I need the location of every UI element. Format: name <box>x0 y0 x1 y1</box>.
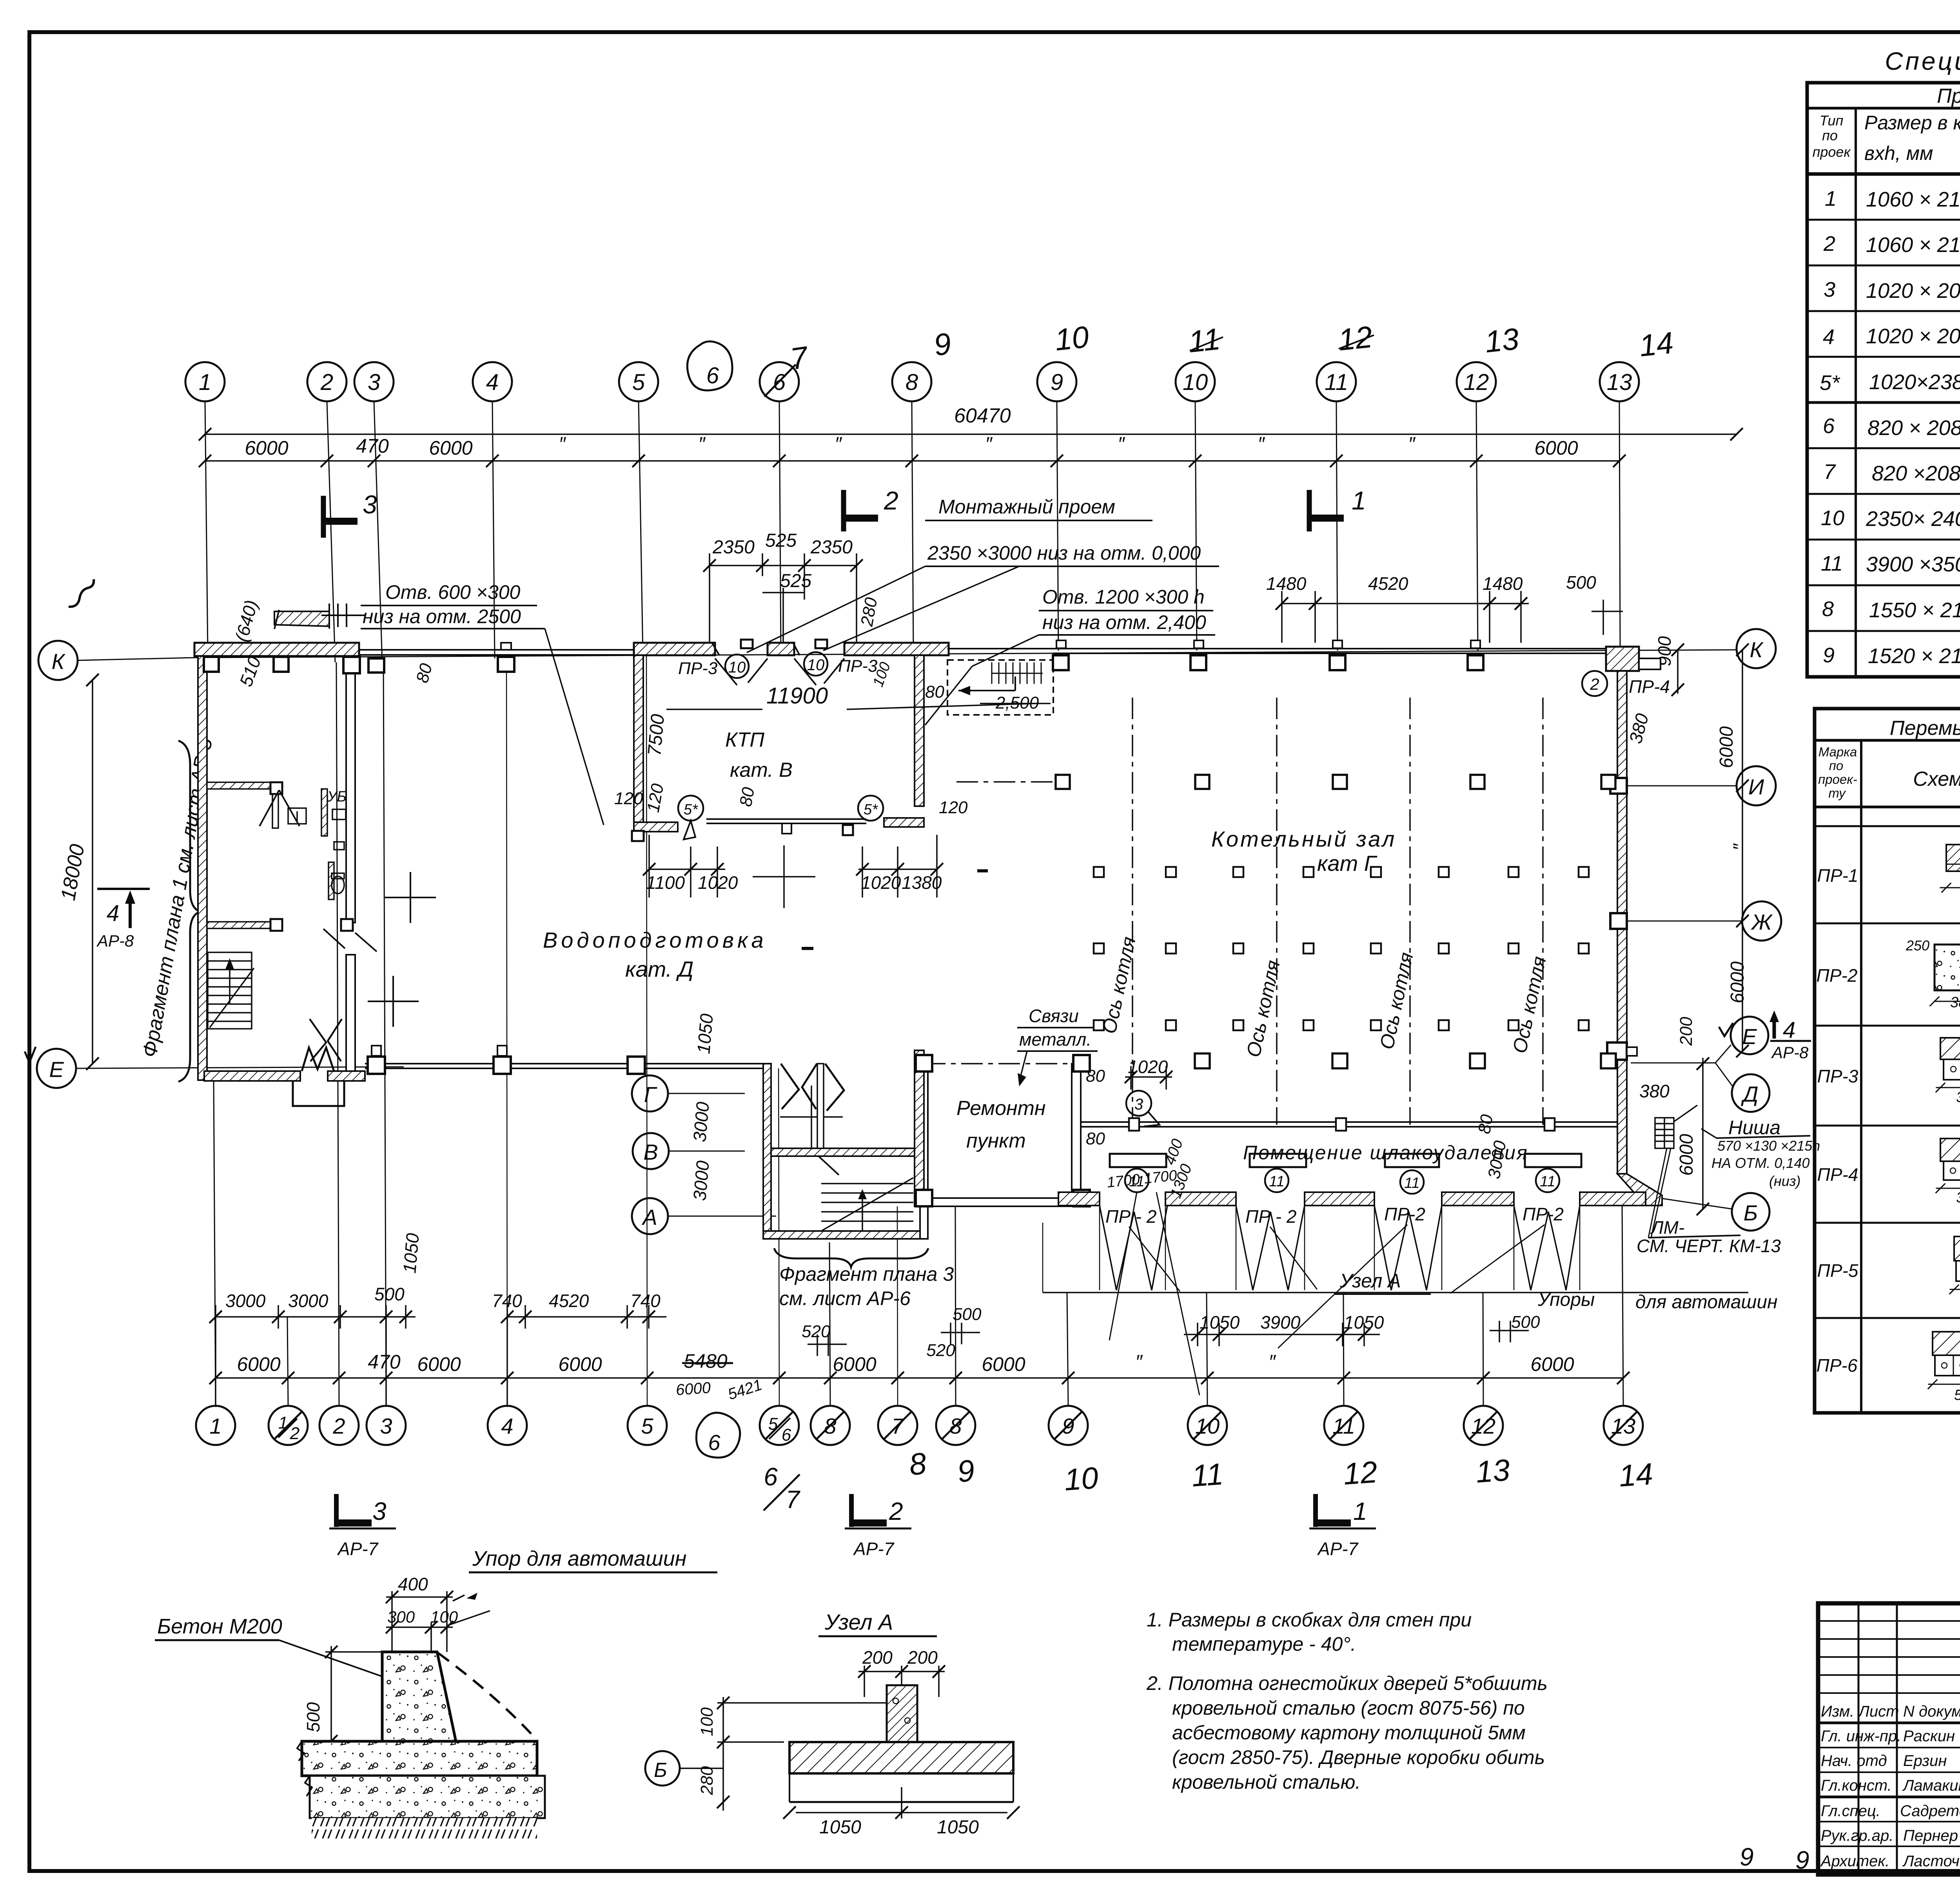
svg-text:Рук.гр.ар.: Рук.гр.ар. <box>1821 1827 1893 1844</box>
svg-text:7: 7 <box>1824 460 1836 484</box>
svg-text:температуре - 40°.: температуре - 40°. <box>1172 1633 1356 1655</box>
svg-text:Е: Е <box>1742 1024 1757 1049</box>
svg-text:1050: 1050 <box>819 1817 861 1838</box>
svg-text:Изм. Лист: Изм. Лист <box>1821 1703 1899 1720</box>
svg-text:6: 6 <box>773 370 786 395</box>
svg-text:Тип: Тип <box>1820 112 1844 129</box>
svg-text:Ось котля: Ось котля <box>1376 950 1417 1051</box>
svg-text:13: 13 <box>1611 1414 1635 1438</box>
svg-text:для автомашин: для автомашин <box>1635 1292 1777 1313</box>
svg-text:9: 9 <box>1051 370 1063 395</box>
svg-text:80: 80 <box>736 786 759 808</box>
svg-text:Проемы: Проемы <box>1937 85 1960 107</box>
svg-text:1050: 1050 <box>937 1817 979 1838</box>
svg-text:2: 2 <box>1590 675 1599 693</box>
svg-text:Д: Д <box>1740 1082 1758 1106</box>
svg-text:Гл. инж-пр.: Гл. инж-пр. <box>1821 1728 1901 1745</box>
svg-text:80: 80 <box>1086 1129 1105 1148</box>
svg-text:Водоподготовка: Водоподготовка <box>543 928 767 952</box>
svg-text:Гл.конст.: Гл.конст. <box>1821 1777 1892 1794</box>
svg-text:8: 8 <box>1822 597 1834 621</box>
svg-text:НА ОТМ. 0,140: НА ОТМ. 0,140 <box>1711 1155 1810 1171</box>
svg-text:″: ″ <box>835 433 842 455</box>
svg-text:200: 200 <box>907 1647 938 1668</box>
svg-text:5*: 5* <box>684 801 698 818</box>
svg-text:Узел А: Узел А <box>1339 1270 1401 1292</box>
svg-text:14: 14 <box>1618 1456 1654 1493</box>
svg-text:500: 500 <box>1566 572 1596 593</box>
svg-text:10: 10 <box>807 656 825 674</box>
svg-text:ПР-5: ПР-5 <box>1817 1260 1858 1281</box>
svg-text:3: 3 <box>363 490 377 519</box>
svg-text:9: 9 <box>1062 1414 1074 1438</box>
svg-text:3: 3 <box>372 1497 387 1525</box>
svg-text:3: 3 <box>1134 1096 1143 1113</box>
svg-text:11: 11 <box>1540 1173 1555 1190</box>
svg-text:Размер в кладке: Размер в кладке <box>1864 112 1960 134</box>
svg-text:6000: 6000 <box>237 1353 280 1375</box>
svg-text:380: 380 <box>1639 1081 1670 1101</box>
svg-text:пункт: пункт <box>966 1129 1026 1152</box>
svg-text:7: 7 <box>891 1414 904 1438</box>
svg-text:АР-8: АР-8 <box>1771 1043 1809 1062</box>
svg-text:1100: 1100 <box>646 872 685 893</box>
svg-text:1550 × 2100: 1550 × 2100 <box>1869 598 1960 622</box>
svg-text:820 ×2080: 820 ×2080 <box>1872 462 1960 485</box>
svg-text:Отв. 600 ×300: Отв. 600 ×300 <box>385 581 521 603</box>
svg-text:ПР-2: ПР-2 <box>1523 1204 1564 1224</box>
svg-text:Ерзин: Ерзин <box>1903 1752 1947 1769</box>
svg-text:7: 7 <box>788 339 811 376</box>
svg-text:8: 8 <box>906 370 918 395</box>
svg-text:Ось котля: Ось котля <box>1242 958 1284 1059</box>
svg-text:6000: 6000 <box>982 1353 1025 1375</box>
svg-text:10: 10 <box>1183 370 1208 395</box>
svg-text:1: 1 <box>1352 486 1366 515</box>
svg-text:525: 525 <box>780 571 811 591</box>
svg-text:470: 470 <box>368 1351 401 1373</box>
svg-text:кат. В: кат. В <box>730 759 793 781</box>
svg-text:500: 500 <box>953 1305 982 1324</box>
svg-text:100: 100 <box>697 1707 717 1736</box>
svg-text:120: 120 <box>644 782 668 814</box>
svg-text:КТП: КТП <box>725 729 764 751</box>
svg-text:11: 11 <box>1129 1173 1144 1190</box>
svg-text:1060 × 2100: 1060 × 2100 <box>1866 188 1960 211</box>
svg-text:8: 8 <box>907 1446 928 1482</box>
svg-text:250: 250 <box>1906 937 1929 954</box>
svg-text:4: 4 <box>501 1414 513 1438</box>
svg-text:11: 11 <box>1191 1456 1225 1493</box>
svg-text:12: 12 <box>1336 319 1374 357</box>
svg-text:АР-8: АР-8 <box>96 932 134 950</box>
svg-text:3: 3 <box>1824 278 1835 301</box>
svg-text:80: 80 <box>412 661 436 685</box>
svg-text:11: 11 <box>1404 1175 1419 1191</box>
svg-text:12: 12 <box>1464 370 1489 395</box>
svg-text:10: 10 <box>1195 1414 1220 1438</box>
svg-text:кат Г: кат Г <box>1317 851 1377 876</box>
svg-text:ПР-4: ПР-4 <box>1629 676 1670 697</box>
svg-text:(гост 2850-75). Дверные кор: (гост 2850-75). Дверные коробки обить <box>1172 1746 1545 1768</box>
svg-text:1020: 1020 <box>861 872 901 893</box>
svg-text:2: 2 <box>320 370 333 395</box>
svg-text:510: 510 <box>236 654 265 689</box>
svg-text:11: 11 <box>1325 370 1348 395</box>
svg-text:12: 12 <box>1471 1414 1495 1438</box>
svg-text:300: 300 <box>387 1608 415 1626</box>
svg-text:АР-7: АР-7 <box>1317 1539 1359 1559</box>
svg-text:1480: 1480 <box>1266 573 1307 594</box>
svg-text:6000: 6000 <box>417 1353 461 1375</box>
svg-text:ПР - 2: ПР - 2 <box>1245 1206 1296 1227</box>
svg-text:380: 380 <box>1956 1189 1960 1206</box>
svg-text:120: 120 <box>939 798 968 817</box>
svg-text:кровельной сталью (гост 807: кровельной сталью (гост 8075-56) по <box>1172 1697 1525 1719</box>
svg-text:4: 4 <box>107 901 119 926</box>
svg-text:525: 525 <box>765 530 797 551</box>
svg-text:И: И <box>1748 774 1764 799</box>
svg-text:АР-7: АР-7 <box>853 1539 895 1559</box>
svg-text:Котельный зал: Котельный зал <box>1211 827 1396 851</box>
svg-text:5: 5 <box>641 1414 653 1438</box>
svg-text:ПР-2: ПР-2 <box>1817 965 1858 986</box>
svg-text:3: 3 <box>380 1414 392 1438</box>
svg-text:4: 4 <box>486 370 499 395</box>
svg-text:13: 13 <box>1483 321 1520 359</box>
svg-text:6000: 6000 <box>833 1353 876 1375</box>
svg-text:3900 ×3500: 3900 ×3500 <box>1866 553 1960 576</box>
svg-text:1050: 1050 <box>1200 1312 1240 1333</box>
svg-text:4520: 4520 <box>549 1291 589 1311</box>
svg-text:380: 380 <box>1956 1089 1960 1106</box>
svg-text:2: 2 <box>1823 232 1835 256</box>
svg-text:280: 280 <box>857 596 881 628</box>
svg-text:по: по <box>1822 127 1838 143</box>
svg-text:6: 6 <box>782 1425 791 1445</box>
svg-text:см. лист АР-6: см. лист АР-6 <box>779 1287 911 1309</box>
svg-text:570 ×130 ×215h: 570 ×130 ×215h <box>1717 1138 1820 1154</box>
svg-text:6000: 6000 <box>1716 726 1737 768</box>
svg-text:470: 470 <box>356 435 389 457</box>
svg-text:Марка: Марка <box>1818 745 1857 759</box>
svg-text:3000: 3000 <box>689 1160 713 1202</box>
svg-text:1050: 1050 <box>693 1013 717 1055</box>
svg-text:80: 80 <box>1086 1066 1105 1086</box>
svg-text:7500: 7500 <box>644 713 668 757</box>
svg-text:Ниша: Ниша <box>1728 1117 1780 1139</box>
svg-text:1020: 1020 <box>1128 1057 1168 1077</box>
svg-text:К: К <box>1749 637 1764 662</box>
svg-text:низ на отм. 2,400: низ на отм. 2,400 <box>1042 611 1206 633</box>
svg-text:7: 7 <box>786 1485 800 1514</box>
svg-text:1050: 1050 <box>1344 1312 1384 1333</box>
svg-text:В: В <box>643 1140 658 1164</box>
svg-text:″: ″ <box>1118 433 1125 455</box>
svg-text:5: 5 <box>632 370 645 395</box>
svg-text:″: ″ <box>1408 433 1416 455</box>
svg-text:Пернер: Пернер <box>1903 1827 1958 1844</box>
svg-text:1. Размеры в скобках для с: 1. Размеры в скобках для стен при <box>1147 1609 1472 1631</box>
svg-text:18000: 18000 <box>57 843 89 903</box>
svg-text:6000: 6000 <box>245 437 288 459</box>
svg-text:6000: 6000 <box>1534 437 1578 459</box>
svg-text:″: ″ <box>1730 843 1751 850</box>
svg-text:10: 10 <box>1053 319 1090 357</box>
svg-text:кровельной сталью.: кровельной сталью. <box>1172 1771 1361 1793</box>
svg-text:11: 11 <box>1821 552 1843 575</box>
svg-text:металл.: металл. <box>1019 1029 1091 1050</box>
svg-text:по: по <box>1829 758 1844 773</box>
svg-text:Упор для автомашин: Упор для автомашин <box>472 1547 687 1570</box>
svg-text:13: 13 <box>1475 1452 1511 1489</box>
svg-text:2. Полотна огнестойких двере: 2. Полотна огнестойких дверей 5*обшить <box>1146 1672 1548 1694</box>
svg-text:8: 8 <box>824 1414 836 1438</box>
svg-text:(640): (640) <box>231 598 261 644</box>
svg-text:Ж: Ж <box>1750 910 1773 934</box>
svg-text:2350× 2400: 2350× 2400 <box>1866 507 1960 531</box>
svg-text:11900: 11900 <box>766 683 828 709</box>
svg-text:400: 400 <box>1161 1137 1186 1167</box>
svg-text:100: 100 <box>430 1608 458 1626</box>
svg-text:проек: проек <box>1813 144 1851 160</box>
svg-text:1060 × 2100: 1060 × 2100 <box>1866 233 1960 257</box>
svg-text:6000: 6000 <box>1530 1353 1574 1375</box>
svg-text:ПР-6: ПР-6 <box>1817 1355 1858 1376</box>
svg-text:″: ″ <box>559 433 566 455</box>
svg-text:5*: 5* <box>864 801 878 818</box>
svg-text:ПР-1: ПР-1 <box>1817 865 1858 886</box>
svg-text:проек-: проек- <box>1818 772 1857 787</box>
svg-text:Упоры: Упоры <box>1537 1289 1595 1310</box>
svg-text:2: 2 <box>884 486 898 515</box>
svg-text:1520 × 2100: 1520 × 2100 <box>1868 644 1960 668</box>
svg-text:5*: 5* <box>1820 371 1840 395</box>
svg-text:А: А <box>641 1205 657 1229</box>
svg-text:Б: Б <box>654 1759 667 1782</box>
svg-text:80: 80 <box>1475 1113 1497 1135</box>
svg-text:2350 ×3000 низ на отм. 0,000: 2350 ×3000 низ на отм. 0,000 <box>927 542 1201 564</box>
svg-text:200: 200 <box>1677 1017 1696 1046</box>
svg-text:Связи: Связи <box>1029 1006 1079 1026</box>
svg-text:Архитек.: Архитек. <box>1820 1853 1889 1870</box>
svg-text:6000: 6000 <box>675 1379 711 1399</box>
svg-text:ту: ту <box>1828 786 1846 800</box>
svg-text:280: 280 <box>697 1766 717 1795</box>
svg-text:1480: 1480 <box>1483 573 1523 594</box>
svg-text:1: 1 <box>209 1414 221 1438</box>
svg-text:3: 3 <box>368 370 380 395</box>
svg-text:500: 500 <box>374 1284 405 1304</box>
svg-text:9: 9 <box>1795 1846 1809 1874</box>
svg-text:1: 1 <box>199 370 211 395</box>
svg-text:″: ″ <box>1269 1351 1276 1373</box>
svg-text:13: 13 <box>1607 370 1632 395</box>
svg-text:асбестовому картону толщиной: асбестовому картону толщиной 5мм <box>1172 1722 1526 1744</box>
svg-text:2: 2 <box>332 1414 345 1438</box>
svg-text:вxh, мм: вxh, мм <box>1864 142 1933 164</box>
svg-text:Нач. отд: Нач. отд <box>1821 1752 1887 1769</box>
svg-text:9: 9 <box>932 326 953 363</box>
svg-text:″: ″ <box>985 433 993 455</box>
svg-text:2: 2 <box>290 1424 299 1443</box>
svg-text:6000: 6000 <box>1676 1134 1697 1176</box>
svg-text:6: 6 <box>706 363 719 388</box>
svg-text:3000: 3000 <box>225 1291 266 1311</box>
svg-text:Ламакин: Ламакин <box>1902 1777 1960 1794</box>
svg-text:6000: 6000 <box>558 1353 602 1375</box>
svg-text:14: 14 <box>1637 325 1675 363</box>
svg-text:Б: Б <box>1744 1200 1758 1225</box>
svg-text:Фрагмент плана 3: Фрагмент плана 3 <box>779 1263 954 1285</box>
svg-text:N докум.: N докум. <box>1903 1703 1960 1720</box>
svg-text:520: 520 <box>802 1322 831 1341</box>
svg-text:820 × 2080: 820 × 2080 <box>1867 416 1960 440</box>
svg-text:11: 11 <box>1269 1173 1284 1190</box>
svg-text:1380: 1380 <box>902 872 942 893</box>
svg-text:2: 2 <box>889 1497 903 1525</box>
svg-text:Е: Е <box>49 1057 64 1082</box>
svg-text:Монтажный проем: Монтажный проем <box>938 496 1115 518</box>
svg-text:5480: 5480 <box>684 1350 727 1372</box>
svg-text:Бетон М200: Бетон М200 <box>157 1615 282 1638</box>
svg-text:10: 10 <box>1821 506 1844 530</box>
svg-text:6: 6 <box>764 1463 778 1491</box>
svg-text:120: 120 <box>614 789 643 808</box>
svg-text:9: 9 <box>1823 644 1835 667</box>
svg-text:8: 8 <box>949 1414 962 1438</box>
svg-text:740: 740 <box>492 1291 522 1311</box>
svg-text:740: 740 <box>630 1291 661 1311</box>
svg-text:АР-7: АР-7 <box>337 1539 379 1559</box>
svg-text:5421: 5421 <box>726 1376 764 1403</box>
svg-text:380: 380 <box>1950 994 1960 1011</box>
svg-text:380: 380 <box>1625 711 1652 746</box>
svg-text:Ось котля: Ось котля <box>1508 954 1550 1055</box>
svg-text:10: 10 <box>1063 1460 1100 1497</box>
svg-text:1050: 1050 <box>399 1232 423 1274</box>
svg-text:9: 9 <box>1740 1843 1754 1871</box>
svg-text:Перемычки: Перемычки <box>1890 717 1960 740</box>
svg-text:Г: Г <box>644 1082 657 1107</box>
svg-text:11: 11 <box>1332 1414 1355 1438</box>
svg-text:низ на отм. 2500: низ на отм. 2500 <box>363 606 521 627</box>
svg-text:Ласточкина: Ласточкина <box>1902 1853 1960 1870</box>
svg-text:Гл.спец.: Гл.спец. <box>1821 1802 1880 1820</box>
svg-text:ПР-3: ПР-3 <box>838 656 878 676</box>
svg-text:510: 510 <box>1954 1387 1960 1403</box>
svg-text:6000: 6000 <box>1727 961 1748 1003</box>
svg-text:ПР-2: ПР-2 <box>1384 1204 1425 1224</box>
svg-text:9: 9 <box>956 1453 976 1489</box>
svg-text:2350: 2350 <box>810 537 853 558</box>
svg-text:6: 6 <box>1823 414 1835 438</box>
svg-text:6: 6 <box>708 1430 720 1455</box>
svg-text:кат. Д: кат. Д <box>625 957 693 981</box>
svg-text:Спецификация проемов ворот: Спецификация проемов ворот и дверей <box>1885 47 1960 75</box>
svg-text:200: 200 <box>862 1647 893 1668</box>
svg-text:4: 4 <box>1823 325 1835 349</box>
svg-text:4: 4 <box>1783 1017 1795 1043</box>
svg-text:″: ″ <box>698 433 706 455</box>
svg-text:Помещение шлакоудаления: Помещение шлакоудаления <box>1243 1142 1528 1164</box>
svg-text:Узел А: Узел А <box>824 1610 893 1634</box>
svg-text:1020: 1020 <box>698 872 738 893</box>
svg-text:3000: 3000 <box>689 1101 713 1143</box>
svg-text:УБ: УБ <box>327 789 347 805</box>
svg-text:Ремонтн: Ремонтн <box>956 1097 1046 1120</box>
svg-text:12: 12 <box>1342 1454 1379 1491</box>
svg-text:(низ): (низ) <box>1769 1173 1801 1189</box>
svg-text:3900: 3900 <box>1260 1312 1301 1333</box>
svg-text:Отв. 1200 ×300 h: Отв. 1200 ×300 h <box>1042 586 1205 608</box>
svg-text:1020 × 2080: 1020 × 2080 <box>1866 279 1960 303</box>
svg-text:Садретдинов: Садретдинов <box>1900 1802 1960 1820</box>
svg-text:6000: 6000 <box>429 437 472 459</box>
svg-text:60470: 60470 <box>954 404 1011 427</box>
svg-text:СМ. ЧЕРТ. КМ-13: СМ. ЧЕРТ. КМ-13 <box>1637 1236 1781 1256</box>
svg-text:ПР-3: ПР-3 <box>1817 1066 1858 1086</box>
svg-text:Схема сечения: Схема сечения <box>1913 768 1960 790</box>
svg-text:80: 80 <box>925 682 944 702</box>
svg-text:К: К <box>51 649 65 674</box>
svg-text:500: 500 <box>303 1702 323 1732</box>
svg-text:2350: 2350 <box>712 537 755 558</box>
svg-text:3000: 3000 <box>288 1291 328 1311</box>
svg-text:1020×2380: 1020×2380 <box>1869 370 1960 394</box>
svg-text:″: ″ <box>1135 1351 1143 1373</box>
svg-text:500: 500 <box>1511 1313 1540 1332</box>
svg-text:1: 1 <box>1353 1497 1367 1525</box>
svg-text:Раскин: Раскин <box>1903 1728 1955 1745</box>
svg-text:10: 10 <box>728 659 746 676</box>
svg-text:ПР-3: ПР-3 <box>678 659 718 678</box>
svg-text:400: 400 <box>398 1574 428 1594</box>
svg-text:1: 1 <box>1825 187 1837 210</box>
svg-text:ПР-4: ПР-4 <box>1817 1164 1858 1185</box>
svg-text:4520: 4520 <box>1368 573 1408 594</box>
svg-text:″: ″ <box>1258 433 1265 455</box>
svg-text:1020 × 2080: 1020 × 2080 <box>1866 325 1960 348</box>
